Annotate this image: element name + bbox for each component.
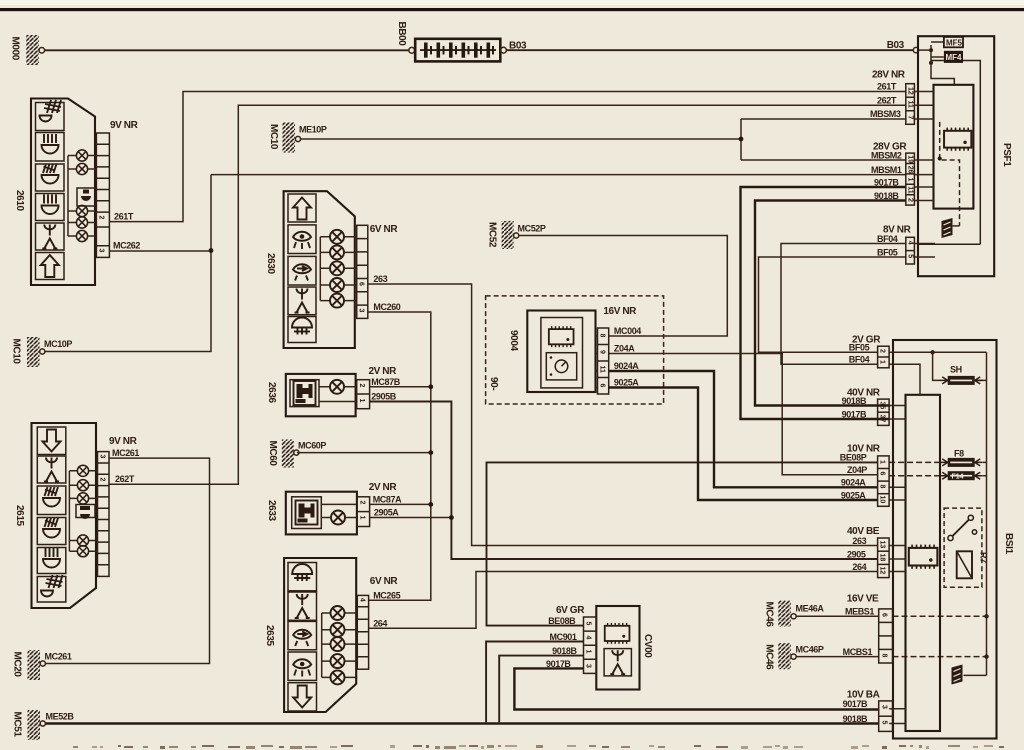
svg-text:9017B: 9017B [843,699,868,709]
svg-text:8: 8 [879,485,886,489]
svg-text:2: 2 [879,349,886,353]
svg-text:4: 4 [358,598,365,602]
svg-text:B03: B03 [509,41,527,52]
svg-text:MC10: MC10 [268,124,279,150]
svg-text:F8: F8 [954,449,964,459]
svg-text:SH: SH [950,365,962,375]
svg-text:10: 10 [879,496,886,504]
svg-text:262T: 262T [877,96,897,106]
svg-text:263: 263 [852,536,866,546]
svg-text:R7: R7 [979,552,989,563]
svg-text:ME52B: ME52B [46,712,75,722]
svg-text:2: 2 [98,216,105,220]
svg-text:2630: 2630 [265,253,276,274]
svg-text:2905B: 2905B [371,392,396,402]
svg-text:16V NR: 16V NR [603,306,637,317]
svg-text:2V NR: 2V NR [369,482,398,493]
svg-text:MC10P: MC10P [44,339,72,349]
svg-text:MC52: MC52 [487,222,498,248]
svg-text:3: 3 [99,455,106,459]
svg-text:MC004: MC004 [614,326,641,336]
svg-text:BF04: BF04 [849,355,870,365]
svg-text:MC60: MC60 [267,441,278,467]
svg-text:BB00: BB00 [396,22,407,47]
svg-text:7: 7 [906,116,913,120]
svg-text:4: 4 [906,241,913,245]
svg-text:19: 19 [906,155,913,163]
svg-text:9018B: 9018B [843,714,868,724]
svg-text:6V NR: 6V NR [370,224,399,235]
svg-text:MC265: MC265 [373,591,400,601]
svg-text:MC52P: MC52P [518,224,546,234]
svg-text:13: 13 [879,541,886,549]
svg-text:2: 2 [99,478,106,482]
svg-text:BF05: BF05 [849,343,870,353]
svg-text:35: 35 [879,402,886,410]
svg-text:262T: 262T [115,474,135,484]
svg-text:6V GR: 6V GR [556,605,585,616]
svg-text:12: 12 [879,567,886,575]
svg-text:9004: 9004 [508,330,519,351]
svg-text:9024A: 9024A [614,361,639,371]
svg-text:Z04P: Z04P [847,465,867,475]
svg-text:MBSM2: MBSM2 [871,150,902,160]
svg-text:26: 26 [906,166,913,174]
svg-text:9025A: 9025A [841,490,866,500]
svg-text:2633: 2633 [266,500,277,521]
svg-text:MC46: MC46 [764,602,775,628]
svg-text:MBSM1: MBSM1 [871,165,902,175]
svg-text:9024A: 9024A [841,478,866,488]
svg-text:MF5: MF5 [946,38,963,47]
svg-text:B03: B03 [887,40,905,51]
svg-text:264: 264 [852,562,866,572]
svg-text:11: 11 [906,186,913,194]
svg-text:5: 5 [585,622,592,626]
svg-text:8: 8 [881,654,888,658]
svg-text:2615: 2615 [14,505,25,526]
svg-text:1: 1 [358,516,365,520]
svg-text:MCBS1: MCBS1 [843,647,873,657]
svg-text:BE08B: BE08B [548,616,576,626]
svg-text:9V NR: 9V NR [110,120,139,131]
svg-text:261T: 261T [877,82,897,92]
svg-text:MC46P: MC46P [796,645,824,655]
svg-text:CV00: CV00 [642,634,653,658]
svg-text:5: 5 [881,721,888,725]
svg-text:5: 5 [906,254,913,258]
svg-text:2636: 2636 [266,382,277,403]
svg-text:4: 4 [585,636,592,640]
svg-text:2: 2 [906,198,913,202]
svg-text:1: 1 [358,399,365,403]
svg-text:1: 1 [879,360,886,364]
svg-text:9017B: 9017B [546,659,571,669]
svg-text:263: 263 [373,274,387,284]
svg-text:F14: F14 [952,474,964,481]
svg-text:MC260: MC260 [373,302,400,312]
svg-text:90-: 90- [488,377,499,390]
svg-text:8: 8 [599,334,606,338]
svg-text:MC901: MC901 [550,632,577,642]
svg-text:6: 6 [879,472,886,476]
svg-text:9025A: 9025A [614,378,639,388]
svg-text:MC261: MC261 [112,448,139,458]
svg-text:3: 3 [358,309,365,313]
svg-text:11: 11 [599,366,606,374]
svg-text:16V VE: 16V VE [847,594,879,605]
svg-text:BF05: BF05 [877,247,898,257]
svg-text:9018B: 9018B [552,646,577,656]
svg-text:264: 264 [373,619,387,629]
svg-text:6: 6 [599,384,606,388]
svg-text:2: 2 [358,384,365,388]
svg-text:3: 3 [585,664,592,668]
svg-text:2905A: 2905A [374,508,399,518]
svg-text:9018B: 9018B [874,191,899,201]
svg-text:9017B: 9017B [842,409,867,419]
svg-text:MC10: MC10 [11,339,22,365]
svg-text:ME10P: ME10P [299,125,327,135]
svg-text:1: 1 [906,178,913,182]
svg-text:261T: 261T [114,212,134,222]
svg-text:6: 6 [881,613,888,617]
svg-text:11: 11 [906,101,913,109]
svg-text:1: 1 [585,650,592,654]
svg-text:2905: 2905 [847,549,866,559]
svg-text:MF4: MF4 [946,53,963,62]
svg-text:9018B: 9018B [842,396,867,406]
svg-text:1: 1 [879,460,886,464]
svg-text:BE08P: BE08P [840,453,867,463]
svg-text:MC262: MC262 [113,241,140,251]
svg-text:MC87B: MC87B [371,377,400,387]
svg-text:2635: 2635 [264,625,275,646]
svg-text:Z04A: Z04A [614,344,635,354]
svg-text:18: 18 [879,554,886,562]
svg-text:ME46A: ME46A [796,604,825,614]
svg-text:3: 3 [98,249,105,253]
svg-text:28V NR: 28V NR [872,70,906,81]
svg-text:MC20: MC20 [12,652,23,678]
svg-text:MC51: MC51 [12,712,23,738]
svg-text:9: 9 [599,350,606,354]
svg-text:6: 6 [358,282,365,286]
svg-text:M000: M000 [10,37,21,61]
svg-text:3: 3 [881,705,888,709]
svg-text:MBSM3: MBSM3 [870,109,901,119]
svg-text:2610: 2610 [14,190,25,211]
svg-text:BSI1: BSI1 [1003,533,1014,554]
svg-text:MC87A: MC87A [373,495,402,505]
svg-text:BF04: BF04 [877,234,898,244]
svg-text:9017B: 9017B [874,177,899,187]
svg-text:MEBS1: MEBS1 [845,607,874,617]
svg-text:MC261: MC261 [45,652,72,662]
svg-text:2V NR: 2V NR [369,366,398,377]
svg-text:MC46: MC46 [764,644,775,670]
svg-text:2: 2 [358,501,365,505]
svg-text:PSF1: PSF1 [1001,143,1012,167]
svg-text:37: 37 [879,415,886,423]
svg-text:9V NR: 9V NR [109,436,138,447]
svg-text:6V NR: 6V NR [370,576,399,587]
svg-text:12: 12 [906,87,913,95]
svg-text:MC60P: MC60P [298,441,326,451]
